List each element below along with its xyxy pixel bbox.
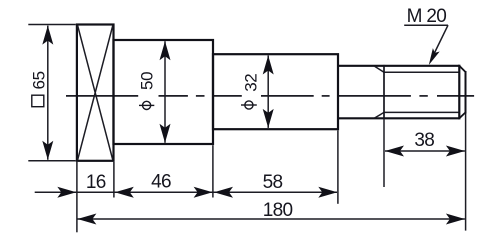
dimension phi32: dimension line: [267, 56, 269, 128]
svg-text:M 20: M 20: [407, 6, 447, 27]
end chamfer vertical: [458, 65, 460, 120]
end chamfer diagonals: [459, 66, 465, 119]
dimension row 16/46/58: dimension line: [35, 191, 337, 193]
threaded shank outer diameter lines: [338, 66, 459, 119]
arrow 180 left (points left): [77, 214, 96, 225]
arrow 38 right (points right): [446, 146, 465, 157]
extension line at shaft end (x=465.6): [465, 114, 467, 231]
dimension 38: dimension line: [385, 150, 465, 152]
extension line at phi50/phi32 step (x=213): [212, 145, 214, 197]
M20 leader arrowhead: [429, 48, 440, 65]
full-thread boundary line: [383, 65, 385, 119]
label phi32: phi symbol: [241, 101, 257, 109]
arrow at 16/46 boundary (points left): [115, 187, 134, 198]
dimension 65: extension lines: [28, 25, 76, 161]
dimension 65: arrow down: [42, 141, 53, 160]
arrow 180 right (points right): [446, 214, 465, 225]
svg-text:16: 16: [86, 172, 106, 193]
centerline (shaft axis, dash-dot): [66, 95, 474, 97]
dimension phi50: dimension line: [164, 41, 166, 143]
flange X-cross diagonals: [78, 25, 113, 160]
arrow outside-left of 16 (points right): [57, 187, 76, 198]
svg-text:46: 46: [151, 172, 171, 193]
label phi50: phi symbol: [139, 101, 154, 109]
arrow 46 right (points right): [194, 187, 213, 198]
dimension phi50: arrow down: [160, 124, 171, 143]
svg-text:58: 58: [263, 172, 283, 193]
dimension phi32: arrow down: [263, 109, 274, 128]
shaft end face: [465, 71, 467, 114]
extension line at flange/phi50 step (x=114): [113, 162, 115, 198]
extension line at left flange edge (x=77): [76, 162, 78, 232]
dimension phi32: arrow up: [263, 56, 274, 75]
svg-text:38: 38: [414, 130, 434, 151]
dimension phi50: arrow up: [160, 41, 171, 60]
label square65: square symbol: [32, 95, 44, 107]
phi32 cylinder section: [213, 54, 338, 129]
svg-text:32: 32: [242, 74, 261, 92]
svg-text:50: 50: [138, 72, 157, 90]
thread root (minor diameter) thin lines: [375, 66, 460, 118]
arrow 58 right (points right): [318, 187, 337, 198]
square flange 65x65 (body outline): [77, 25, 114, 161]
M20 leader diagonal: [432, 25, 449, 59]
arrow 38 left (points left): [385, 146, 404, 157]
phi50 cylinder section: [114, 40, 214, 144]
svg-text:65: 65: [30, 71, 49, 89]
M20 leader underline: [404, 24, 448, 26]
dimension 180: dimension line: [77, 218, 465, 220]
arrow 58 left (points left): [214, 187, 233, 198]
svg-text:180: 180: [263, 200, 293, 221]
dimension 65: dimension line: [47, 26, 49, 160]
extension line at phi32/shank step (x=338): [337, 130, 339, 203]
dimension 65: arrow up: [42, 26, 53, 45]
extension line below thread boundary (x=384): [383, 119, 385, 187]
